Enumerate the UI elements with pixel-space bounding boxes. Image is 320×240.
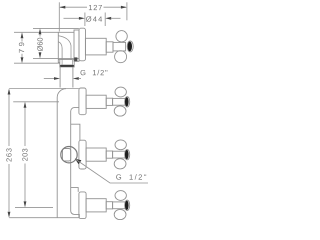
side view inlet pipe down <box>60 67 73 88</box>
front valve 3 bottom lobe <box>114 209 126 219</box>
front valve 2 hub <box>113 151 125 158</box>
label G 1/2 lower <box>116 174 121 179</box>
front valve 3 arm dark <box>125 201 129 210</box>
dim 203 bottom extension line <box>15 206 53 208</box>
front valve 1 body <box>86 95 106 108</box>
dim 127 left arrow <box>59 6 65 9</box>
side view elbow body outline <box>58 32 74 62</box>
dim text 79 <box>19 42 24 52</box>
dim 203 line <box>24 108 26 202</box>
front view riser outer boundary and 263 top extension <box>9 88 79 90</box>
side view handle arm dark <box>128 42 132 52</box>
dim Ø60 extension line top <box>33 27 79 29</box>
side view escutcheon plate <box>79 28 86 61</box>
front valve 2 arm dark <box>125 150 129 159</box>
side view collar dark band <box>60 65 74 67</box>
front escutcheon 3 <box>79 192 86 219</box>
dim Ø44 left extension tick <box>84 13 86 27</box>
front valve 1 top lobe <box>115 87 126 97</box>
dim Ø60 up arrow <box>39 28 42 34</box>
dim 127 left extension line <box>58 2 60 31</box>
dim 263 down arrow <box>8 212 11 218</box>
dim Ø44 right extension tick <box>104 13 106 27</box>
dim Ø44 left arrow <box>79 17 85 20</box>
side view elbow bore curve outer <box>58 36 71 60</box>
dim 79 extension line top <box>14 31 58 33</box>
side view handle bottom lobe <box>115 51 127 63</box>
dim 127 right arrow <box>121 6 127 9</box>
dim text Ø44 <box>86 16 102 22</box>
front view bottom line and 263 bottom extension <box>9 217 79 219</box>
front valve 2 top lobe <box>115 140 126 150</box>
front valve 3 neck <box>106 202 112 209</box>
side view valve cylinder <box>85 38 106 55</box>
side view handle arm outline <box>127 41 133 52</box>
dim 203 up arrow <box>24 102 27 108</box>
side view handle top lobe <box>116 31 127 42</box>
side view wall flange <box>74 30 79 61</box>
dim 79 up arrow <box>21 32 24 38</box>
front valve 1 neck <box>106 98 112 105</box>
dim 203 top extension line <box>13 101 59 103</box>
fitting above escutcheon 2 <box>71 124 80 140</box>
dim text 203 <box>22 149 27 161</box>
detail inlet inside callout <box>63 149 71 162</box>
front valve 3 arm outline <box>125 200 130 210</box>
front valve 1 arm dark <box>125 97 129 106</box>
front valve 1 arm outline <box>125 97 130 107</box>
dim Ø44 right arrow <box>105 17 111 20</box>
dim 263 line <box>8 95 10 212</box>
side view handle hub <box>113 42 126 51</box>
leader line <box>76 159 148 183</box>
G 1/2 upper left arrow <box>44 78 55 80</box>
dim Ø60 down arrow <box>39 52 42 58</box>
dim Ø44 right tail <box>111 17 121 19</box>
G 1/2 upper right arrow <box>73 77 79 80</box>
dim 79 line <box>21 39 23 58</box>
side view flange dark foot <box>74 57 77 61</box>
label G 1/2 upper <box>80 70 85 75</box>
side view collar <box>58 60 74 67</box>
side view elbow bore curve <box>58 42 62 60</box>
front valve 3 top lobe <box>115 191 126 201</box>
dim text Ø60 <box>37 38 43 51</box>
detail callout circle <box>61 147 77 163</box>
dim Ø60 extension line bottom <box>33 57 79 59</box>
dim Ø60 line <box>39 35 41 54</box>
front valve 3 hub <box>113 202 125 209</box>
dim Ø44 line left tail <box>64 17 80 19</box>
front valve 2 bottom lobe <box>114 159 126 169</box>
front valve 2 body <box>86 148 106 161</box>
side view collar inner verticals <box>62 60 72 65</box>
dim 79 down arrow <box>21 57 24 63</box>
dim 79 extension line bottom <box>14 62 60 64</box>
dim 263 up arrow <box>8 89 11 95</box>
front valve 1 hub <box>113 98 125 105</box>
dim 127 right extension line <box>126 2 128 20</box>
front escutcheon 1 <box>79 88 86 115</box>
front escutcheon 2 <box>79 140 86 169</box>
fitting above escutcheon 3 <box>71 188 79 192</box>
front view riser inner boundary <box>71 108 80 218</box>
dim 127 line <box>60 6 126 8</box>
side view neck <box>106 42 113 52</box>
dim text 127 <box>89 5 102 10</box>
front valve 1 bottom lobe <box>114 106 126 116</box>
front valve 2 arm outline <box>125 149 130 159</box>
leader arrowhead <box>75 159 82 165</box>
front view riser outer arc <box>57 89 66 218</box>
front valve 3 body <box>86 199 106 212</box>
dim 203 down arrow <box>24 201 27 207</box>
dim text 263 <box>6 148 11 161</box>
front valve 2 neck <box>106 151 112 158</box>
